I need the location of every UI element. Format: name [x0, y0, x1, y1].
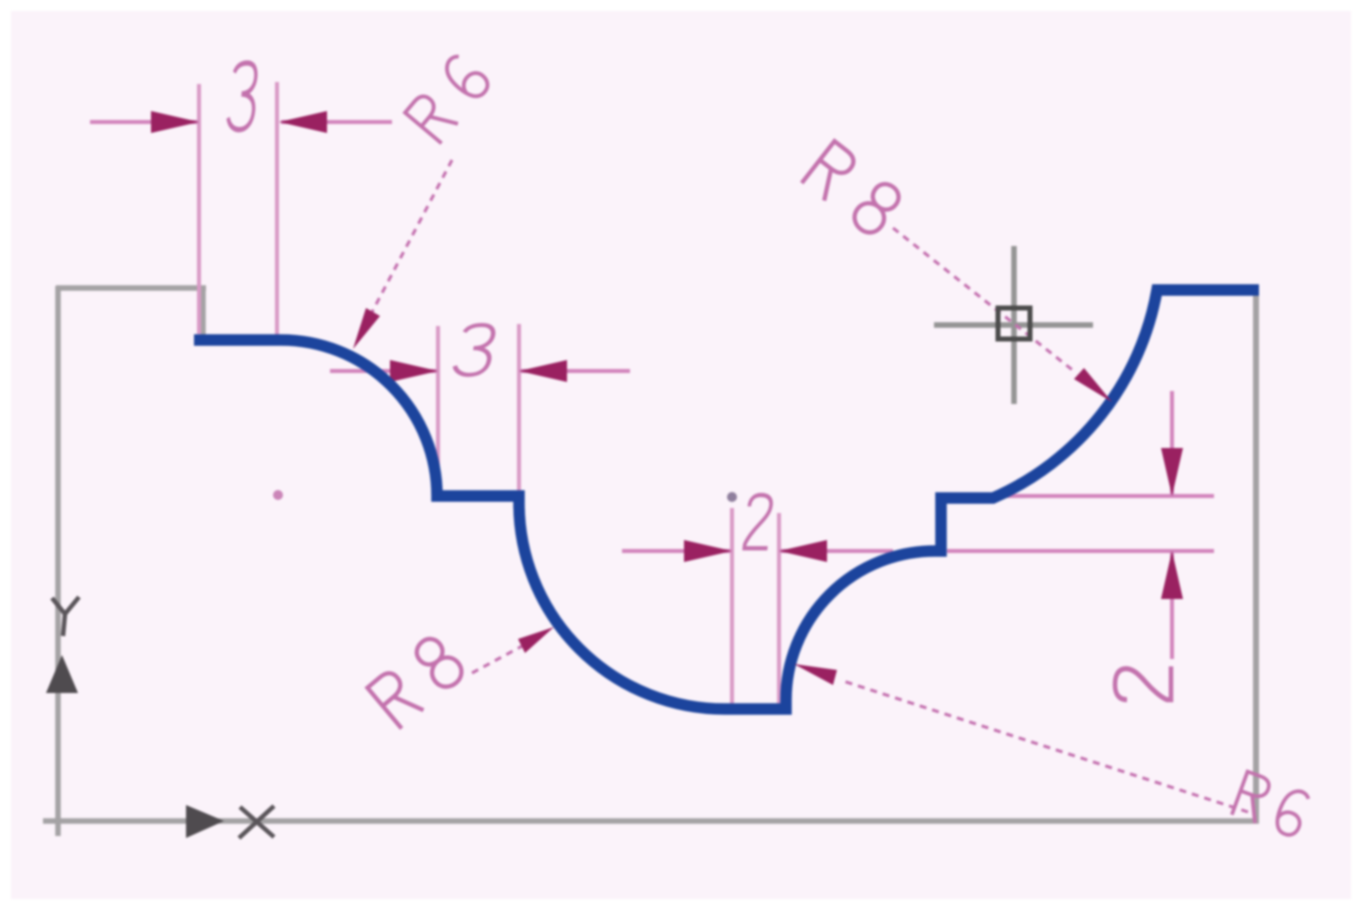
crosshair cursor vertical	[1011, 246, 1017, 404]
leader R8 left line	[472, 637, 539, 673]
wire: gray step vertical at x=203	[200, 288, 206, 341]
dim B extension line 1	[436, 326, 440, 490]
dim C text 2	[744, 495, 773, 548]
dim C arrow left	[684, 540, 732, 562]
wire: gray left vertical (Y axis / left edge)	[55, 286, 61, 836]
dim C extension line 1	[730, 508, 734, 706]
dim D dimension line upper	[1170, 391, 1174, 494]
dim D arrow up	[1161, 551, 1183, 599]
leader R6 bottom-right line	[840, 680, 1248, 812]
dim A extension line 1	[197, 84, 201, 334]
leader R8 top-right line	[893, 228, 1075, 372]
dim B extension line 2	[517, 324, 521, 492]
dim A arrow right	[279, 111, 327, 133]
leader R8 top-right text	[802, 141, 905, 238]
Y axis label	[52, 597, 79, 636]
dim B dimension line left	[330, 369, 436, 373]
leader R6 top-left text	[405, 53, 492, 144]
dim B text 3	[453, 325, 496, 375]
dim C dimension line left	[622, 549, 730, 553]
dim A dimension line right	[281, 120, 392, 124]
dim B arrow left	[390, 360, 438, 382]
dim D text 2	[1115, 666, 1171, 699]
crosshair pickbox	[998, 308, 1030, 339]
node C: arc1 center marker dot	[273, 490, 283, 500]
node B: X axis arrowhead	[186, 805, 224, 838]
dim C extension line 2	[777, 513, 781, 706]
dim C arrow right	[779, 540, 827, 562]
dim A extension line 2	[275, 82, 279, 336]
dim D arrow down	[1161, 448, 1183, 496]
leader R6 bottom-right arrow	[794, 664, 837, 685]
dim D dimension line lower	[1170, 553, 1174, 659]
leader R6 bottom-right text	[1232, 772, 1311, 838]
dim B dimension line right	[521, 369, 630, 373]
wire: gray top-left horizontal edge	[56, 285, 206, 291]
leader R6 top-left arrow	[353, 308, 380, 349]
leader R8 top-right arrow	[1074, 368, 1112, 402]
crosshair cursor horizontal	[934, 322, 1093, 328]
node D: arc2 center marker dot	[727, 492, 737, 502]
dim D extension line bottom	[947, 549, 1214, 553]
dim C dimension line right	[781, 549, 893, 553]
blue profile polyline	[194, 290, 1259, 709]
leader R6 top-left line	[361, 160, 452, 333]
leader R8 left text	[367, 633, 467, 729]
wire: gray X axis bottom	[43, 818, 1259, 824]
node A: Y axis arrowhead	[46, 655, 78, 693]
X axis label	[239, 806, 274, 838]
dim B arrow right	[519, 360, 567, 382]
dim D extension line top	[1005, 494, 1214, 498]
dim A arrow left	[151, 111, 199, 133]
leader R8 left arrow	[518, 627, 554, 653]
wire: gray right vertical edge	[1253, 292, 1259, 821]
dim A dimension line left	[90, 120, 197, 124]
dim A text 3	[227, 63, 258, 130]
